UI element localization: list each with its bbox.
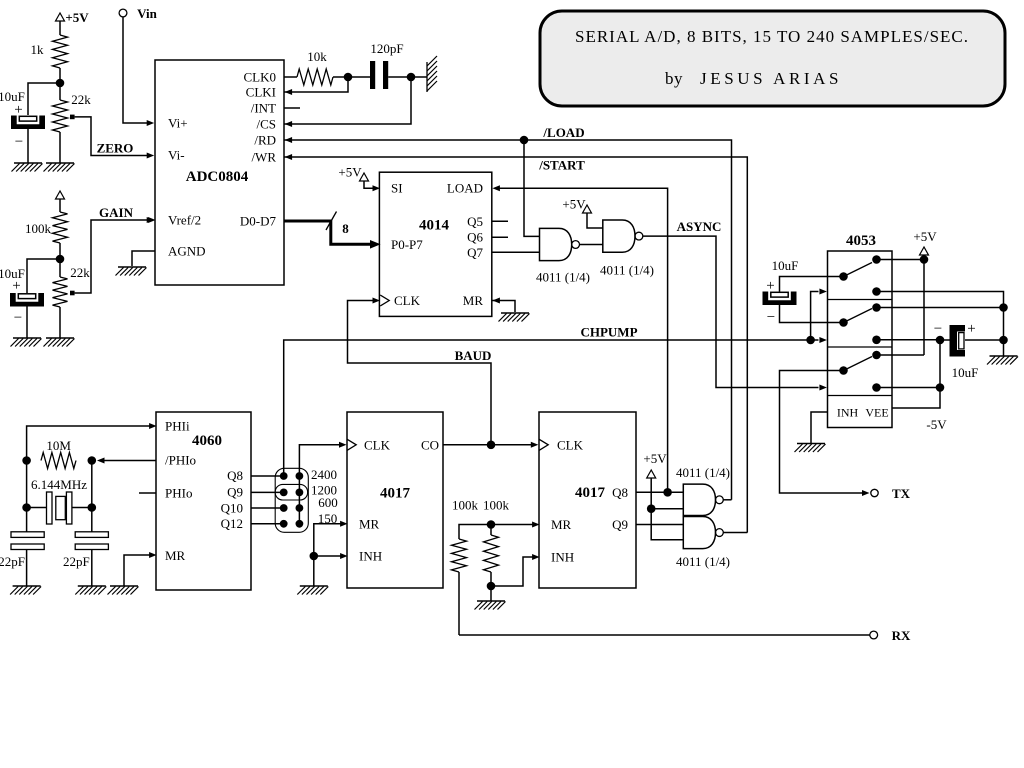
wire U6 INH net: [491, 557, 537, 586]
capacitor 10uF C3: [763, 258, 799, 326]
svg-text:6.144MHz: 6.144MHz: [31, 477, 87, 492]
svg-text:+: +: [766, 278, 774, 294]
svg-text:22k: 22k: [71, 92, 91, 107]
svg-text:Vin: Vin: [137, 6, 158, 21]
svg-text:RX: RX: [892, 628, 911, 643]
wire +5V to S3 top: [877, 260, 925, 356]
ADC0804 pin CLKI: [246, 85, 292, 100]
svg-text:PHIo: PHIo: [165, 486, 192, 501]
svg-text:VEE: VEE: [865, 406, 888, 420]
resistor 1k: [31, 35, 68, 68]
svg-text:Q6: Q6: [467, 230, 483, 245]
ground 100k: [475, 601, 506, 610]
svg-text:22pF: 22pF: [63, 554, 90, 569]
wire ZERO net: [75, 117, 155, 159]
ground 4060 MR: [108, 586, 139, 595]
label 150: [318, 511, 338, 526]
4060 pin Q12: [221, 516, 243, 531]
svg-text:1k: 1k: [31, 42, 45, 57]
wire PHIi net: [27, 426, 154, 461]
wire jumper bus to CLK: [299, 442, 346, 524]
svg-text:Q9: Q9: [227, 485, 243, 500]
wire MR/INH to ground: [313, 556, 315, 586]
4060 pin Q8: [227, 468, 243, 483]
node +5V gate junction: [647, 504, 656, 513]
wire +5V to gate a: [651, 508, 683, 510]
net label CHPUMP: [580, 325, 637, 340]
4014 pin Q7: [467, 245, 483, 260]
wire node2 to wall ground: [411, 76, 427, 78]
node junction 100k/22k/cap: [56, 255, 65, 264]
ADC0804 pin /INT: [251, 101, 276, 116]
net label /START: [538, 158, 585, 173]
resistor 100k right: [483, 498, 510, 573]
wire Q7 to gate: [492, 251, 540, 253]
svg-text:P0-P7: P0-P7: [391, 237, 423, 252]
svg-text:+5V: +5V: [65, 10, 89, 25]
ADC0804 pin CLK0: [244, 70, 277, 85]
svg-text:JESUS ARIAS: JESUS ARIAS: [700, 69, 842, 88]
4014 pin LOAD: [447, 181, 500, 196]
svg-text:/WR: /WR: [251, 150, 276, 165]
wire cap plus: [965, 339, 1004, 341]
svg-text:SI: SI: [391, 181, 403, 196]
svg-text:10uF: 10uF: [772, 258, 799, 273]
svg-text:D0-D7: D0-D7: [240, 214, 277, 229]
net label -5V: [926, 417, 947, 432]
svg-text:GAIN: GAIN: [99, 205, 134, 220]
wire node to cap: [348, 76, 370, 78]
net label BAUD: [455, 348, 492, 363]
terminal RX: [870, 628, 911, 643]
wire 100k left to RX: [458, 572, 460, 635]
svg-text:/PHIo: /PHIo: [165, 453, 196, 468]
wire CO to CLK: [443, 442, 538, 448]
svg-text:100k: 100k: [483, 498, 510, 513]
wire GAIN net: [75, 217, 155, 293]
wire /LOAD net: [284, 140, 732, 500]
net label /LOAD: [542, 125, 584, 140]
nand gate U3a 4011: [540, 228, 580, 260]
svg-text:CLK: CLK: [394, 293, 421, 308]
capacitor 22pF right: [63, 532, 108, 569]
IC U4 4060 body: [156, 412, 251, 590]
wire xtal right: [72, 461, 96, 532]
wire /INT stub: [284, 107, 300, 109]
svg-text:4014: 4014: [419, 218, 450, 234]
4014 pin MR: [463, 293, 500, 308]
ground 4053 INH: [795, 444, 826, 453]
svg-text:-5V: -5V: [926, 417, 947, 432]
ground 22pF right: [75, 586, 106, 595]
svg-text:CLK: CLK: [557, 437, 584, 452]
wire C1 to ground: [27, 129, 29, 163]
svg-text:AGND: AGND: [168, 244, 206, 259]
node CO/BAUD junction: [487, 441, 496, 450]
svg-text:100k: 100k: [452, 498, 479, 513]
svg-text:Q8: Q8: [612, 485, 628, 500]
svg-text:BAUD: BAUD: [455, 348, 492, 363]
svg-text:CLK0: CLK0: [244, 70, 277, 85]
svg-text:CO: CO: [421, 437, 439, 452]
svg-text:+5V: +5V: [562, 197, 586, 212]
wire CLKI feedback: [284, 77, 348, 92]
svg-text:−: −: [15, 134, 23, 150]
svg-text:−: −: [14, 310, 22, 326]
svg-text:Q8: Q8: [227, 468, 243, 483]
potentiometer 22k (ZERO): [53, 92, 92, 132]
ground C1: [12, 163, 43, 172]
wire RX net: [459, 634, 870, 636]
wire S1 bottom net: [877, 292, 1004, 308]
wire /LOAD to gate input: [524, 140, 540, 236]
svg-text:Vref/2: Vref/2: [168, 213, 201, 228]
svg-text:ASYNC: ASYNC: [677, 219, 722, 234]
switch S1: [839, 255, 881, 296]
wire pot2 to ground: [59, 307, 61, 338]
power +5V at 4053: [913, 229, 937, 260]
ground pot1: [44, 163, 75, 172]
wire 100k to pot: [59, 243, 61, 277]
svg-text:INH: INH: [359, 549, 382, 564]
power +5V at gates: [643, 451, 683, 540]
wire node to C2: [27, 259, 60, 293]
terminal TX: [871, 486, 911, 501]
svg-text:Q10: Q10: [221, 501, 243, 516]
svg-text:ZERO: ZERO: [97, 141, 134, 156]
wire Q12 to jumper: [251, 523, 284, 525]
wire S1 top to +5V: [877, 259, 925, 261]
svg-text:4011 (1/4): 4011 (1/4): [676, 554, 730, 569]
IC U6 4017 body: [539, 412, 636, 588]
svg-text:+: +: [12, 278, 20, 294]
ADC0804 pin Vi-: [168, 148, 185, 163]
wire Q8 to gate: [636, 491, 683, 493]
terminal Vin: [119, 6, 158, 21]
label 4011 (1/4) a: [536, 270, 590, 285]
resistor 10k: [297, 49, 333, 85]
ADC0804 pin /RD: [254, 133, 292, 148]
switch S2: [839, 303, 881, 344]
svg-text:4053: 4053: [846, 233, 876, 249]
U5 pin CO: [421, 437, 439, 452]
svg-text:by: by: [665, 69, 683, 88]
IC U5 4017 body: [347, 412, 443, 588]
wall ground (clock): [427, 56, 437, 92]
node junction 1k/22k/cap: [56, 79, 65, 88]
svg-text:INH: INH: [551, 550, 574, 565]
ground pot2: [44, 338, 75, 347]
wire ASYNC net: [643, 236, 827, 390]
ADC0804 pin AGND: [168, 244, 206, 259]
wire Q9 to gate: [636, 524, 683, 526]
svg-text:CLKI: CLKI: [246, 85, 276, 100]
wire PHIo stub: [139, 492, 156, 494]
wire U6 MR net: [459, 525, 537, 540]
power +5V at SI: [338, 165, 377, 189]
4060 pin PHIo: [165, 486, 192, 501]
svg-text:22k: 22k: [70, 265, 90, 280]
wire 100k right top: [490, 525, 492, 536]
4014 pin P0-P7: [391, 237, 423, 252]
svg-text:4011 (1/4): 4011 (1/4): [676, 465, 730, 480]
svg-text:10k: 10k: [307, 49, 327, 64]
node CHPUMP select: [806, 336, 815, 345]
U5 pin INH: [340, 549, 382, 564]
label 1200: [311, 483, 337, 498]
wire S2 top net: [877, 307, 1004, 309]
svg-text:/CS: /CS: [256, 117, 276, 132]
nand gate U3d 4011: [683, 517, 723, 549]
node CLK junction: [344, 73, 353, 82]
net label ZERO: [97, 141, 134, 156]
label 600: [318, 495, 338, 510]
4014 pin Q6: [467, 230, 483, 245]
svg-text:MR: MR: [359, 516, 380, 531]
svg-text:Q5: Q5: [467, 214, 483, 229]
wire Q5 stub: [492, 220, 508, 222]
wire C3 plus to S1 common: [780, 277, 844, 292]
svg-text:4017: 4017: [380, 486, 411, 502]
node -5V S3: [936, 383, 945, 392]
svg-text:/RD: /RD: [254, 133, 276, 148]
svg-text:/LOAD: /LOAD: [542, 125, 584, 140]
wire /START net: [284, 157, 747, 533]
svg-text:MR: MR: [551, 517, 572, 532]
jumper block outline: [275, 468, 308, 532]
ADC0804 pin Vi+: [168, 116, 188, 131]
node vdd cap right: [999, 303, 1008, 312]
ADC0804 pin /WR: [251, 150, 292, 165]
wire pot to ground: [59, 132, 61, 163]
wire U5 MR: [314, 524, 345, 556]
svg-text:2400: 2400: [311, 467, 337, 482]
wire 100k bottom to ground: [490, 586, 492, 601]
4060 pin /PHIo: [165, 453, 196, 468]
svg-text:PHIi: PHIi: [165, 419, 190, 434]
svg-text:+5V: +5V: [643, 451, 667, 466]
nand gate U3c 4011: [683, 484, 723, 515]
svg-text:+: +: [14, 102, 22, 118]
node /LOAD branch: [520, 136, 529, 145]
wire C2 to ground: [26, 307, 28, 339]
wire Vin to Vi+: [123, 17, 154, 126]
capacitor 10uF C2: [0, 266, 44, 326]
node 100k top junction: [487, 520, 496, 529]
IC U7 4053 body: [828, 233, 893, 428]
resistor 10M: [41, 438, 76, 469]
ADC0804 pin /CS: [256, 117, 292, 132]
ground U5: [297, 586, 328, 595]
wire 22pF right to ground: [91, 550, 93, 587]
power +5V symbol (zero bias): [56, 10, 90, 25]
U5 pin MR: [340, 516, 379, 531]
svg-text:INH: INH: [837, 406, 859, 420]
capacitor 22pF left: [0, 532, 44, 569]
svg-text:+5V: +5V: [913, 229, 937, 244]
ground C2: [11, 338, 42, 347]
4060 pin MR: [149, 548, 185, 563]
net label GAIN: [99, 205, 134, 220]
wire C3 minus to S2 common: [780, 305, 844, 323]
label 2400: [311, 467, 337, 482]
svg-text:+: +: [967, 321, 975, 337]
U6 pin INH: [532, 550, 574, 565]
wire 4060 MR to ground: [124, 555, 154, 586]
U6 pin Q8: [612, 485, 628, 500]
potentiometer 22k (GAIN): [53, 265, 91, 307]
svg-text:10uF: 10uF: [952, 365, 979, 380]
IC U1 ADC0804 body: [155, 60, 284, 285]
node 100k bottom junction: [487, 582, 496, 591]
wire R1 to pot: [59, 68, 61, 100]
wire U5 INH: [314, 555, 345, 557]
wire /PHIo net: [97, 458, 156, 464]
svg-text:TX: TX: [892, 486, 911, 501]
U6 pin CLK: [539, 437, 583, 452]
wire 4014 MR to ground: [492, 301, 515, 313]
node xtal right top: [88, 456, 97, 465]
4060 pin PHIi: [149, 419, 190, 434]
wire node to C1: [28, 83, 60, 115]
wire Q10 to jumper: [251, 507, 284, 509]
svg-text:−: −: [934, 321, 942, 337]
power +5V at gate U3b: [562, 197, 602, 229]
wire select A: [811, 289, 827, 341]
svg-text:SERIAL A/D, 8 BITS, 15 TO 240: SERIAL A/D, 8 BITS, 15 TO 240 SAMPLES/SE…: [575, 27, 969, 46]
svg-text:/INT: /INT: [251, 101, 276, 116]
ground 22pF left: [10, 586, 41, 595]
svg-text:4017: 4017: [575, 485, 606, 501]
svg-text:ADC0804: ADC0804: [186, 169, 249, 185]
4060 pin Q10: [221, 501, 243, 516]
svg-text:120pF: 120pF: [370, 41, 403, 56]
capacitor 10uF C4: [934, 321, 979, 380]
wire S3 bottom to -5V: [877, 387, 941, 389]
U7 pin VEE label: [865, 406, 888, 420]
node Q8 junction: [663, 488, 672, 497]
wire -5V net: [892, 340, 940, 408]
net label ASYNC: [677, 219, 722, 234]
wire +5V to R 100k: [59, 199, 61, 212]
svg-text:4011 (1/4): 4011 (1/4): [536, 270, 590, 285]
svg-text:4011 (1/4): 4011 (1/4): [600, 263, 654, 278]
crystal 6.144MHz: [31, 477, 87, 524]
wire 10k to node: [333, 76, 348, 78]
wire cap minus: [940, 339, 950, 341]
svg-text:CHPUMP: CHPUMP: [580, 325, 637, 340]
wire LOAD from Q8 net: [499, 188, 668, 492]
svg-text:Q7: Q7: [467, 245, 483, 260]
4060 pin Q9: [227, 485, 243, 500]
label 4011 (1/4) c: [676, 465, 730, 480]
nand gate U3b 4011: [603, 220, 643, 252]
power +5V symbol (gain bias): [56, 191, 65, 199]
svg-text:MR: MR: [165, 548, 186, 563]
svg-text:−: −: [767, 310, 775, 326]
wire right node down: [1003, 308, 1005, 341]
node -5V top: [936, 336, 945, 345]
wire BAUD net: [348, 301, 492, 445]
wire xtal left: [22, 461, 46, 532]
wire 100k right bottom: [490, 572, 492, 586]
node +5V 4053: [920, 255, 929, 264]
U6 pin MR: [532, 517, 571, 532]
svg-text:CLK: CLK: [364, 437, 391, 452]
svg-text:MR: MR: [463, 293, 484, 308]
svg-text:Q9: Q9: [612, 517, 628, 532]
jumper pins: [280, 472, 303, 528]
ADC0804 pin Vref/2: [148, 213, 201, 228]
wire gate c out: [723, 499, 731, 501]
svg-text:600: 600: [318, 495, 338, 510]
wire /CS to clock node: [284, 77, 411, 124]
bus D0-D7 (8 bits): [284, 212, 381, 249]
U7 pin INH label: [837, 406, 859, 420]
svg-text:10M: 10M: [46, 438, 71, 453]
wire Q8 to jumper: [251, 475, 284, 477]
wire S3 common to TX: [780, 371, 870, 497]
ground AGND: [116, 267, 147, 276]
4014 pin Q5: [467, 214, 483, 229]
node MR/INH junction: [310, 552, 319, 561]
ADC0804 pin D0-D7: [240, 214, 277, 229]
svg-text:LOAD: LOAD: [447, 181, 483, 196]
svg-text:Q12: Q12: [221, 516, 243, 531]
node xtal left top: [22, 456, 31, 465]
svg-text:+5V: +5V: [338, 165, 362, 180]
label 4011 (1/4) d: [676, 554, 730, 569]
U6 pin Q9: [612, 517, 628, 532]
node cap/CS junction: [407, 73, 416, 82]
wire Q9 to jumper: [251, 491, 284, 493]
node cap plus: [999, 336, 1008, 345]
label 4011 (1/4) b: [600, 263, 654, 278]
capacitor 10uF C1: [0, 89, 45, 150]
4014 pin SI: [373, 181, 403, 196]
wire 4053 INH to ground: [811, 412, 828, 443]
ground 4014 MR: [499, 313, 530, 322]
svg-text:Vi+: Vi+: [168, 116, 188, 131]
jumper plug (1200 baud): [275, 484, 307, 500]
svg-text:100k: 100k: [25, 221, 52, 236]
svg-text:Vi-: Vi-: [168, 148, 185, 163]
wire AGND to ground: [132, 251, 155, 266]
svg-text:/START: /START: [538, 158, 585, 173]
capacitor 120pF: [370, 41, 404, 89]
wire 22pF left to ground: [26, 550, 28, 587]
U5 pin CLK: [347, 437, 390, 452]
resistor 100k (gain): [25, 212, 68, 243]
svg-text:8: 8: [342, 221, 349, 236]
svg-text:22pF: 22pF: [0, 554, 25, 569]
IC U2 4014 body: [379, 172, 491, 316]
wire CLK0 to R 10k: [284, 76, 297, 78]
wire right node to ground: [1003, 340, 1005, 356]
resistor 100k left: [452, 498, 479, 573]
svg-text:4060: 4060: [192, 433, 222, 449]
4014 pin CLK: [373, 293, 421, 308]
wire +5V to R1: [59, 21, 61, 35]
wire Q6 stub: [492, 236, 508, 238]
switch S3: [839, 351, 881, 392]
wire S2 bottom net: [877, 339, 941, 341]
ground 4053 cap: [987, 356, 1018, 365]
wire CHPUMP net: [284, 337, 827, 476]
title box: [540, 11, 1005, 106]
wire cap to node2: [388, 76, 411, 78]
wire gate1 out to gate2: [580, 244, 603, 246]
